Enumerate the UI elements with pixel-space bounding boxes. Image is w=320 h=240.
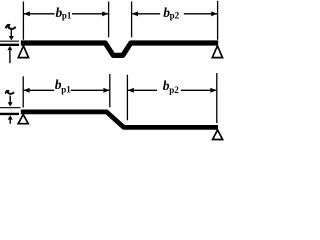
svg-text:p2: p2 bbox=[169, 85, 179, 95]
support triangle right (top fig) bbox=[212, 46, 222, 58]
stepped plate (bottom fig) bbox=[21, 112, 218, 128]
svg-text:p1: p1 bbox=[62, 11, 72, 21]
label t (top fig) bbox=[6, 25, 15, 29]
arrowhead bp1 right (bottom fig) bbox=[103, 88, 109, 93]
t up arrow (bottom fig) bbox=[9, 120, 11, 124]
dimension line bp1 (top fig) bbox=[24, 13, 108, 15]
t down arrow (bottom fig) bbox=[9, 96, 11, 103]
extension line stiffener-left (top fig) bbox=[108, 2, 110, 38]
dimension line bp2 (top fig) bbox=[132, 13, 217, 15]
svg-text:p2: p2 bbox=[170, 11, 180, 21]
arrowhead bp1 right (top fig) bbox=[102, 11, 108, 16]
support triangle right (bottom fig) bbox=[213, 130, 223, 140]
thickness bottom reference line (bottom fig) bbox=[0, 113, 19, 115]
t up arrow (top fig) bbox=[9, 50, 11, 63]
extension line right (bottom fig) bbox=[216, 73, 218, 123]
thickness top reference line (bottom fig) bbox=[0, 107, 21, 109]
arrowhead bp2 right (top fig) bbox=[211, 11, 217, 16]
value label bp1 (top fig) bbox=[56, 5, 72, 21]
arrowhead bp2 right (bottom fig) bbox=[210, 88, 216, 93]
support triangle left (top fig) bbox=[18, 46, 28, 58]
extension line right (top fig) bbox=[217, 1, 219, 40]
thickness top reference line (top fig) bbox=[0, 40, 19, 42]
dimension line bp1 (bottom fig) bbox=[24, 89, 109, 91]
extension line left (bottom fig) bbox=[22, 76, 24, 107]
plate with V groove (top fig) bbox=[21, 43, 218, 55]
value label bp1 (bottom fig) bbox=[55, 77, 71, 94]
arrowhead bp1 left (bottom fig) bbox=[23, 88, 29, 93]
extension line step-right (bottom fig) bbox=[126, 75, 128, 121]
extension line left (top fig) bbox=[22, 2, 24, 40]
extension line step-left (bottom fig) bbox=[109, 74, 111, 107]
arrowhead bp2 left (bottom fig) bbox=[128, 88, 134, 93]
svg-text:p1: p1 bbox=[61, 85, 71, 95]
t down arrow (top fig) bbox=[10, 30, 12, 37]
thickness bottom reference line (top fig) bbox=[0, 44, 19, 46]
extension line stiffener-right (top fig) bbox=[131, 2, 133, 38]
dimension line bp2 (bottom fig) bbox=[128, 89, 216, 91]
label t (bottom fig) bbox=[6, 91, 14, 94]
arrowhead bp2 left (top fig) bbox=[132, 11, 138, 16]
value label bp2 (top fig) bbox=[163, 5, 179, 21]
arrowhead bp1 left (top fig) bbox=[24, 11, 30, 16]
support triangle left (bottom fig) bbox=[18, 115, 28, 124]
value label bp2 (bottom fig) bbox=[163, 78, 179, 95]
